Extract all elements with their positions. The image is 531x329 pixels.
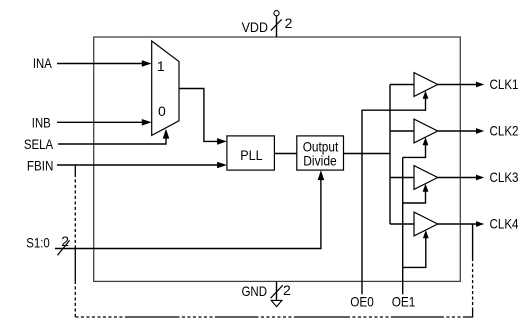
svg-text:SELA: SELA	[24, 136, 54, 152]
OE1 branch to buffer 3 enable	[403, 187, 426, 203]
svg-text:OE0: OE0	[350, 294, 374, 310]
INA wire	[57, 63, 144, 65]
svg-text:0: 0	[158, 103, 166, 119]
external feedback wire dashed bottom	[75, 316, 466, 318]
wire mux output to PLL	[179, 89, 222, 142]
svg-text:CLK4: CLK4	[490, 215, 519, 231]
external feedback wire left solid runs	[74, 164, 76, 281]
external feedback wire bottom solid runs	[128, 316, 442, 318]
GND bus-width slash	[271, 285, 283, 298]
wire Output Divide to clock bus	[344, 153, 391, 155]
mux U1	[152, 41, 179, 135]
ground symbol	[271, 300, 282, 306]
svg-text:INA: INA	[33, 55, 52, 71]
OE1 branch to buffer 2 enable	[403, 141, 426, 158]
S1:0 bus-width slash	[57, 240, 69, 255]
wire bus to buffer 2	[390, 130, 414, 132]
S1:0 wire	[55, 174, 321, 249]
svg-text:VDD: VDD	[242, 19, 268, 35]
buffer A3	[414, 166, 438, 190]
svg-text:CLK1: CLK1	[490, 76, 519, 92]
svg-text:FBIN: FBIN	[27, 157, 54, 173]
svg-text:INB: INB	[32, 114, 51, 130]
wire buffer3 to CLK3	[438, 177, 479, 179]
GND wire	[276, 281, 278, 300]
svg-text:OE1: OE1	[392, 294, 416, 310]
external feedback wire right corner solid	[466, 311, 473, 318]
main device box	[94, 37, 461, 281]
svg-text:CLK3: CLK3	[490, 169, 519, 185]
svg-text:1: 1	[157, 58, 165, 74]
svg-text:S1:0: S1:0	[26, 234, 50, 250]
wire bus to buffer 4	[390, 223, 414, 225]
wire buffer1 to CLK1	[438, 84, 479, 86]
PLL box U2	[227, 136, 275, 170]
wire buffer2 to CLK2	[438, 130, 479, 132]
svg-text:GND: GND	[242, 283, 268, 299]
external feedback wire CLK4 to FBIN solid part	[472, 224, 474, 258]
OE0 wire	[362, 94, 426, 294]
clock bus vertical	[389, 85, 391, 225]
VDD wire	[276, 16, 278, 37]
buffer A1	[414, 73, 438, 97]
external feedback wire dashed vertical left	[74, 175, 76, 317]
INB wire	[57, 121, 144, 123]
svg-text:Divide: Divide	[303, 152, 337, 168]
wire PLL to Output Divide	[274, 153, 296, 155]
svg-text:2: 2	[285, 15, 293, 31]
FBIN wire	[57, 164, 222, 166]
OE1 branch to buffer 4 enable	[403, 234, 426, 268]
OE1 wire main vertical	[402, 157, 404, 294]
wire bus to buffer 3	[390, 177, 414, 179]
wire bus to buffer 1	[390, 84, 414, 86]
external feedback wire dashed vertical right	[472, 258, 474, 311]
Output Divide box U3	[297, 136, 344, 170]
svg-text:2: 2	[283, 282, 291, 298]
svg-text:PLL: PLL	[240, 147, 262, 163]
svg-text:2: 2	[61, 233, 69, 249]
wire buffer4 to CLK4	[438, 223, 479, 225]
svg-text:CLK2: CLK2	[490, 122, 519, 138]
buffer A4	[414, 212, 438, 236]
VDD pin circle	[274, 11, 279, 16]
VDD bus-width slash	[271, 19, 282, 30]
buffer A2	[414, 119, 438, 143]
SELA wire	[58, 132, 166, 144]
